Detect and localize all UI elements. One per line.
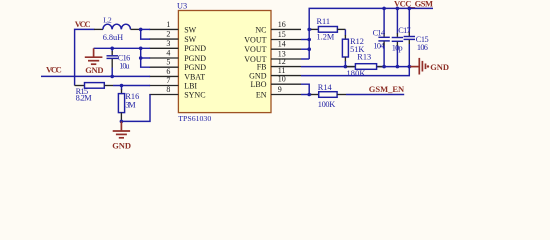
svg-text:14: 14 (278, 40, 286, 49)
wire pin 14 to bus (301, 48, 309, 50)
svg-text:3M: 3M (125, 101, 136, 110)
pin 1 SW (149, 20, 196, 34)
svg-text:PGND: PGND (184, 63, 206, 72)
pin 15 VOUT (244, 30, 301, 44)
node bus junction at R11 row (307, 28, 311, 32)
svg-text:106: 106 (417, 43, 428, 52)
node FB junction C14 (382, 65, 386, 69)
svg-text:1.2M: 1.2M (317, 32, 335, 41)
wire FB rail (301, 66, 412, 68)
svg-text:8: 8 (166, 85, 170, 94)
svg-text:100K: 100K (318, 100, 335, 109)
svg-text:SW: SW (184, 35, 196, 44)
wire VCC to VBAT pin 6 (41, 75, 150, 77)
pin 14 VOUT (244, 40, 301, 54)
pin 3 PGND (149, 39, 206, 53)
svg-text:SW: SW (184, 25, 196, 34)
wire pin 13 to bus (301, 58, 309, 60)
svg-text:GSM_EN: GSM_EN (369, 84, 405, 94)
svg-text:VCC_GSM: VCC_GSM (394, 0, 433, 9)
resistor R11 (309, 17, 345, 42)
resistor R13 (347, 53, 383, 78)
IC U3 body (178, 11, 271, 113)
ground GND1 earth symbol (85, 48, 104, 75)
svg-text:3: 3 (166, 39, 170, 48)
wire SYNC pin 8 loop (121, 95, 150, 122)
svg-text:PGND: PGND (184, 44, 206, 53)
pin 12 FB (257, 57, 301, 71)
wire VOUT bus and VCC_GSM rail (309, 8, 433, 59)
wire L2 junction to pin 1 (141, 28, 150, 30)
svg-text:15: 15 (278, 30, 286, 39)
svg-text:EN: EN (256, 90, 267, 99)
pin 7 LBI (149, 76, 197, 90)
svg-text:180K: 180K (347, 69, 366, 78)
svg-text:10u: 10u (119, 62, 129, 71)
svg-text:9: 9 (278, 85, 282, 94)
capacitor C16 (107, 48, 131, 76)
ground GND2 earth symbol (112, 121, 131, 150)
pin 6 VBAT (149, 67, 205, 81)
svg-text:C14: C14 (373, 28, 386, 37)
pin 8 SYNC (149, 85, 205, 99)
wire GND pin 11 up to FB rail (301, 67, 409, 76)
svg-text:LBO: LBO (251, 80, 267, 89)
svg-text:SYNC: SYNC (184, 90, 205, 99)
capacitor C17 (392, 8, 411, 66)
svg-text:GND: GND (112, 140, 131, 150)
node bus junction pin 15 (307, 38, 311, 42)
node FB junction C15 (408, 65, 412, 69)
svg-text:12: 12 (278, 57, 286, 66)
wire pin 15 to bus (301, 39, 309, 41)
svg-text:2: 2 (166, 30, 170, 39)
inductor L2 (94, 15, 141, 42)
pin 10 LBO (251, 75, 302, 89)
svg-text:GND: GND (85, 65, 103, 75)
svg-text:VCC: VCC (46, 65, 62, 75)
wire R11 to R12 (344, 29, 346, 35)
svg-text:L2: L2 (103, 15, 112, 24)
wire VCC corner down to LBI row (75, 29, 95, 85)
svg-text:GND: GND (430, 62, 449, 72)
svg-text:10: 10 (278, 75, 286, 84)
pin 13 VOUT (244, 50, 301, 64)
svg-text:R14: R14 (318, 83, 333, 92)
svg-text:LBI: LBI (184, 81, 197, 90)
svg-text:7: 7 (166, 76, 170, 85)
svg-text:VBAT: VBAT (184, 72, 205, 81)
svg-text:U3: U3 (177, 1, 187, 10)
svg-text:VOUT: VOUT (244, 45, 266, 54)
node EN junction (307, 93, 311, 97)
capacitor C15 (404, 8, 429, 66)
node PGND junction (139, 47, 143, 51)
resistor R16 (118, 86, 139, 122)
node C16 top junction (110, 47, 114, 51)
svg-text:10p: 10p (392, 43, 403, 52)
pin 11 GND (249, 66, 301, 80)
svg-text:4: 4 (166, 49, 170, 58)
ground GND3 bar symbol (410, 58, 449, 75)
node FB junction C17 (396, 65, 400, 69)
node rail junction C15 (408, 7, 412, 11)
resistor R12 (342, 37, 364, 67)
node bus junction pin 14 (307, 47, 311, 51)
svg-text:R16: R16 (125, 92, 139, 101)
pin 9 EN (256, 85, 301, 99)
pin 16 NC (255, 20, 301, 34)
svg-text:VCC: VCC (75, 19, 91, 29)
node SW junction (139, 28, 143, 32)
node R12 bottom junction (344, 65, 348, 69)
svg-text:VOUT: VOUT (244, 35, 266, 44)
svg-text:8.2M: 8.2M (76, 94, 93, 103)
node rail junction C14 (382, 7, 386, 11)
capacitor C14 (373, 8, 390, 66)
svg-text:6: 6 (166, 67, 170, 76)
pin 4 PGND (149, 49, 206, 63)
pin 2 SW (149, 30, 196, 44)
svg-text:R11: R11 (317, 17, 331, 26)
svg-text:1: 1 (166, 20, 170, 29)
svg-text:5: 5 (166, 58, 170, 67)
node LBI junction (120, 84, 124, 88)
resistor R15 (75, 83, 151, 103)
wire junction down to pin 2 (141, 29, 150, 39)
svg-text:PGND: PGND (184, 54, 206, 63)
wire pin 10 LBO down to EN row (301, 84, 309, 94)
resistor R14 (301, 83, 404, 109)
svg-text:FB: FB (257, 63, 267, 72)
node R16 bottom junction (120, 120, 124, 124)
svg-text:104: 104 (373, 42, 385, 51)
wire PGND branch down to pins 4 and 5 (141, 48, 150, 67)
node rail junction C17 (396, 7, 400, 11)
svg-text:16: 16 (278, 20, 286, 29)
svg-text:6.8uH: 6.8uH (103, 33, 123, 42)
node PGND pin4 junction (139, 56, 143, 60)
pin 5 PGND (149, 58, 206, 72)
node C16 bottom junction (110, 75, 114, 79)
svg-text:R13: R13 (357, 53, 371, 62)
wire GND1 - C16 top - PGND pin 3 (94, 47, 151, 49)
svg-text:TPS61030: TPS61030 (178, 114, 211, 123)
svg-text:NC: NC (255, 25, 266, 34)
